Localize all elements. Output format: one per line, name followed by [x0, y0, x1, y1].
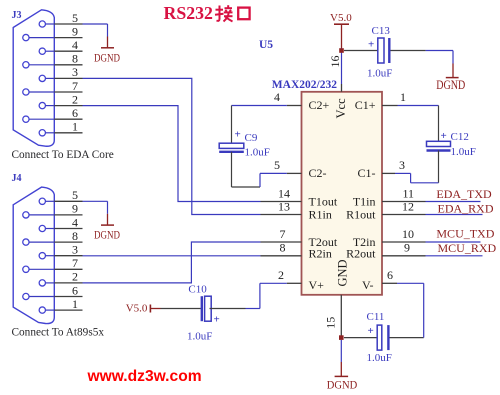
svg-text:14: 14: [278, 186, 290, 200]
svg-text:+: +: [441, 130, 447, 142]
svg-text:V-: V-: [362, 278, 374, 292]
svg-text:1.0uF: 1.0uF: [367, 352, 392, 364]
svg-text:1.0uF: 1.0uF: [367, 68, 392, 80]
svg-text:MCU_TXD: MCU_TXD: [436, 227, 494, 241]
svg-text:GND: GND: [336, 259, 350, 286]
svg-text:8: 8: [72, 52, 78, 66]
svg-text:10: 10: [402, 227, 414, 241]
svg-text:+: +: [235, 129, 241, 141]
svg-text:1: 1: [400, 90, 406, 104]
svg-text:+: +: [368, 39, 374, 51]
svg-text:7: 7: [280, 227, 286, 241]
svg-text:R2in: R2in: [309, 247, 332, 261]
svg-text:11: 11: [403, 186, 415, 200]
svg-text:C1-: C1-: [358, 166, 376, 180]
svg-text:15: 15: [324, 317, 338, 329]
svg-text:R2out: R2out: [346, 247, 376, 261]
svg-text:3: 3: [399, 158, 405, 172]
svg-text:C12: C12: [451, 131, 469, 143]
svg-text:5: 5: [72, 11, 78, 25]
svg-text:V5.0: V5.0: [330, 12, 352, 24]
svg-text:J3: J3: [12, 10, 22, 21]
svg-text:EDA_RXD: EDA_RXD: [438, 201, 494, 215]
svg-text:Connect To EDA Core: Connect To EDA Core: [12, 149, 114, 161]
svg-text:C13: C13: [372, 25, 391, 37]
svg-text:+: +: [214, 314, 220, 326]
svg-text:1: 1: [72, 120, 78, 134]
svg-text:6: 6: [387, 268, 393, 282]
svg-text:4: 4: [274, 90, 280, 104]
svg-text:5: 5: [72, 188, 78, 202]
svg-text:DGND: DGND: [436, 78, 465, 92]
svg-text:6: 6: [72, 283, 78, 297]
svg-text:4: 4: [72, 215, 78, 229]
svg-text:1.0uF: 1.0uF: [451, 146, 476, 158]
svg-text:5: 5: [274, 158, 280, 172]
svg-text:12: 12: [402, 199, 414, 213]
svg-text:RS232: RS232: [164, 3, 214, 23]
svg-text:9: 9: [404, 241, 410, 255]
svg-text:R1out: R1out: [346, 208, 376, 222]
svg-text:2: 2: [72, 92, 78, 106]
svg-text:13: 13: [278, 199, 290, 213]
svg-text:T1out: T1out: [309, 194, 338, 208]
svg-text:EDA_TXD: EDA_TXD: [436, 187, 492, 201]
svg-text:3: 3: [72, 243, 78, 257]
svg-text:MCU_RXD: MCU_RXD: [438, 241, 497, 255]
svg-text:Connect To At89s5x: Connect To At89s5x: [12, 327, 105, 339]
svg-text:1.0uF: 1.0uF: [245, 147, 270, 159]
svg-text:C2-: C2-: [309, 166, 327, 180]
svg-text:6: 6: [72, 106, 78, 120]
svg-text:DGND: DGND: [94, 228, 120, 242]
svg-text:MAX202/232: MAX202/232: [272, 79, 337, 91]
svg-text:C9: C9: [245, 132, 258, 144]
svg-text:J4: J4: [12, 173, 22, 184]
svg-text:2: 2: [278, 268, 284, 282]
svg-text:V5.0: V5.0: [126, 303, 148, 315]
svg-text:9: 9: [72, 24, 78, 38]
svg-text:8: 8: [280, 241, 286, 255]
svg-text:8: 8: [72, 229, 78, 243]
svg-text:T1in: T1in: [353, 194, 376, 208]
svg-text:3: 3: [72, 65, 78, 79]
svg-text:www.dz3w.com: www.dz3w.com: [87, 368, 202, 385]
svg-text:4: 4: [72, 38, 78, 52]
svg-text:9: 9: [72, 202, 78, 216]
svg-text:2: 2: [72, 270, 78, 284]
svg-text:DGND: DGND: [327, 377, 358, 391]
svg-text:16: 16: [328, 56, 342, 68]
svg-text:DGND: DGND: [94, 50, 120, 64]
svg-text:C2+: C2+: [309, 98, 330, 112]
svg-text:+: +: [368, 325, 374, 337]
svg-text:C10: C10: [188, 284, 207, 296]
svg-text:V+: V+: [309, 278, 325, 292]
svg-text:7: 7: [72, 256, 78, 270]
svg-text:1.0uF: 1.0uF: [187, 331, 212, 343]
svg-text:U5: U5: [259, 39, 273, 51]
svg-text:C1+: C1+: [355, 98, 376, 112]
svg-text:C11: C11: [367, 311, 385, 323]
svg-text:R1in: R1in: [309, 208, 332, 222]
svg-text:7: 7: [72, 79, 78, 93]
svg-text:Vcc: Vcc: [334, 98, 348, 119]
svg-text:1: 1: [72, 297, 78, 311]
